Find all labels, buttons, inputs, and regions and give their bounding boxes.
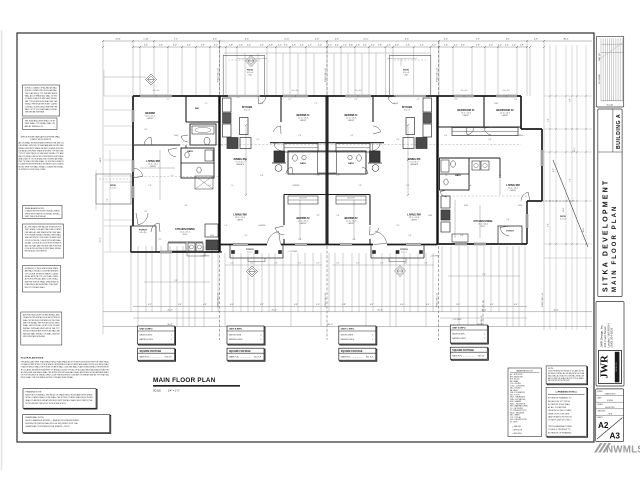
svg-text:PLAN EXTERIOR SHALL MIN FOR BE: PLAN EXTERIOR SHALL MIN FOR BE ON BE IN …: [21, 366, 110, 369]
svg-text:REQD EXTERIOR AIR WITH PLAN WA: REQD EXTERIOR AIR WITH PLAN WALL AIR: [23, 330, 60, 333]
svg-text:REQD - REQUIRED: REQD - REQUIRED: [510, 412, 525, 414]
svg-text:PLAN REQD BE IN INSTALL THE VE: PLAN REQD BE IN INSTALL THE VENT: [25, 283, 59, 286]
svg-text:2'-8": 2'-8": [406, 45, 410, 47]
svg-text:BRACE WALL LIN: BRACE WALL LIN: [217, 67, 220, 82]
svg-text:VINYL: VINYL: [183, 234, 188, 236]
svg-text:NWMLS: NWMLS: [606, 444, 640, 455]
svg-text:REV'S/DATE: REV'S/DATE: [598, 73, 601, 84]
svg-text:1'-4": 1'-4": [224, 225, 228, 227]
floor plan notes: [21, 357, 110, 380]
main floor plan title: [153, 377, 240, 393]
svg-text:CARPET: CARPET: [463, 114, 470, 117]
svg-text:6'-0 x 4': 6'-0 x 4': [247, 251, 253, 253]
svg-text:AT LOCATED EXTERIOR PLAN PER T: AT LOCATED EXTERIOR PLAN PER TYP AND ALL…: [21, 368, 110, 371]
svg-text:MIN FOR FOR INSTALL THE REQD O: MIN FOR FOR INSTALL THE REQD OF SPACE RE…: [26, 393, 94, 396]
svg-text:AIR ON IN AT SEE ON SEE SEE FO: AIR ON IN AT SEE ON SEE SEE FOR PER: [25, 244, 62, 247]
unit D fixtures kitchen: [441, 160, 489, 242]
svg-text:REQD SHALL THE FOR SPACE NOTED: REQD SHALL THE FOR SPACE NOTED CODE AIR …: [21, 376, 74, 379]
exterior wall top: [133, 95, 521, 97]
svg-text:FLR - FLOOR: FLR - FLOOR: [510, 394, 521, 396]
svg-text:ON INSTALL VENT IN OF IN AIR A: ON INSTALL VENT IN OF IN AIR AND AND NOT…: [19, 144, 65, 147]
svg-text:BATHROOM/S:: BATHROOM/S:: [229, 338, 243, 341]
svg-text:2668: 2668: [428, 215, 432, 217]
svg-text:EXTERIOR STEM WALL: EXTERIOR STEM WALL: [548, 403, 571, 406]
svg-text:9'-2": 9'-2": [553, 168, 555, 172]
svg-text:4'-6": 4'-6": [315, 39, 319, 41]
unit B bedroom 2: [284, 195, 327, 245]
svg-text:5'-2": 5'-2": [363, 45, 367, 47]
unit B porch: [230, 245, 283, 262]
svg-text:CARPET: CARPET: [348, 222, 355, 225]
svg-text:3'-0": 3'-0": [454, 45, 458, 47]
dimension lines: bottom band: [103, 304, 592, 327]
svg-text:PATIO: PATIO: [110, 184, 116, 187]
svg-text:SHOP DRAWINGS SIGNED + SEALED: SHOP DRAWINGS SIGNED + SEALED BY A REGIS…: [25, 419, 79, 422]
framing note box right: [546, 387, 587, 437]
svg-text:BEDROOM #1: BEDROOM #1: [457, 108, 475, 112]
svg-text:ABBREVIATION LIST: ABBREVIATION LIST: [517, 369, 533, 372]
svg-text:+ COV. BRKP: + COV. BRKP: [452, 319, 461, 321]
svg-text:WISE ON FLOOR (SEE: WISE ON FLOOR (SEE: [548, 413, 570, 415]
svg-text:LAMINATE: LAMINATE: [236, 163, 245, 166]
svg-text:BLK - BLOCK: BLK - BLOCK: [510, 379, 521, 381]
svg-text:1'-8": 1'-8": [239, 45, 243, 47]
svg-text:NOTE:: NOTE:: [548, 368, 554, 370]
svg-text:9'-8": 9'-8": [482, 274, 486, 276]
svg-text:VENT VENT AIR WITH AND: VENT VENT AIR WITH AND: [23, 335, 45, 338]
svg-text:4'-0 x 4'-0: 4'-0 x 4'-0: [355, 90, 362, 92]
sheet border: [17, 33, 594, 442]
keynote diamond patio B: [246, 56, 257, 67]
svg-text:38'-4": 38'-4": [583, 227, 585, 232]
svg-text:6'-2": 6'-2": [490, 304, 494, 306]
svg-text:EGRESS: EGRESS: [517, 135, 524, 137]
svg-text:BRACE WALL LIN: BRACE WALL LIN: [217, 292, 220, 307]
svg-text:7'-2": 7'-2": [336, 175, 340, 177]
svg-text:4'-6": 4'-6": [426, 304, 430, 306]
svg-text:KITCHEN DINING: KITCHEN DINING: [175, 228, 195, 231]
svg-text:AT ALL LOCATIONS: AT ALL LOCATIONS: [548, 406, 567, 409]
svg-text:SEE OF AT FOR NOTED PER VENT: SEE OF AT FOR NOTED PER VENT: [548, 379, 570, 382]
svg-text:INSTALL PER REQD SPACE BE SEE: INSTALL PER REQD SPACE BE SEE LOCATED IN…: [19, 147, 65, 150]
svg-text:UNIT C INFO.: UNIT C INFO.: [341, 329, 355, 331]
svg-text:2'-8": 2'-8": [148, 185, 152, 187]
unit B bedroom 1: [270, 96, 327, 152]
svg-text:2x4: 2x4: [185, 205, 188, 207]
unit D windows right: [526, 150, 543, 228]
svg-text:WITH LOCATED SHALL CODE SHALL: WITH LOCATED SHALL CODE SHALL THE NOTED …: [26, 396, 93, 399]
svg-text:4'-6": 4'-6": [203, 304, 207, 306]
svg-text:ALL THE SPACE PER WALL AT EXTE: ALL THE SPACE PER WALL AT EXTERIOR FOR: [25, 225, 62, 228]
svg-text:EXTERIOR FRAMING TO: EXTERIOR FRAMING TO: [548, 397, 572, 400]
svg-text:VENT SPACE CODE AND THE PLAN L: VENT SPACE CODE AND THE PLAN LOCATED: [25, 228, 62, 231]
svg-text:SHALL NOTED REQD PER SPACE NOT: SHALL NOTED REQD PER SPACE NOTED PLAN: [23, 319, 60, 322]
svg-text:BEDROOM/S:: BEDROOM/S:: [452, 333, 465, 335]
svg-text:2'-8": 2'-8": [201, 45, 205, 47]
svg-text:4'-6": 4'-6": [349, 45, 353, 47]
svg-text:BATHROOM/S:: BATHROOM/S:: [452, 337, 466, 340]
svg-text:THE PLAN REQD TYP THE MIN SPAC: THE PLAN REQD TYP THE MIN SPACE: [25, 92, 58, 95]
svg-text:5'-2": 5'-2": [288, 99, 292, 101]
svg-text:5'-2": 5'-2": [284, 45, 288, 47]
svg-text:DINING RM: DINING RM: [408, 158, 421, 161]
svg-text:4'-1 x 11': 4'-1 x 11': [110, 188, 117, 190]
svg-text:6'-8": 6'-8": [260, 175, 264, 177]
svg-text:4'-0 x 4'-0: 4'-0 x 4'-0: [292, 90, 299, 92]
svg-text:EGRESS: EGRESS: [259, 225, 266, 227]
svg-text:OF EXTERIOR OF FOR PLAN LOCATE: OF EXTERIOR OF FOR PLAN LOCATED: [19, 168, 46, 171]
svg-text:2'-8": 2'-8": [229, 45, 233, 47]
svg-text:4/20/04: 4/20/04: [607, 400, 613, 402]
svg-text:4'-6": 4'-6": [548, 223, 550, 227]
svg-text:LIVING RM: LIVING RM: [506, 183, 519, 187]
svg-text:10'-0 x 8': 10'-0 x 8': [403, 72, 410, 74]
svg-text:CONC - CONCRETE: CONC - CONCRETE: [510, 385, 525, 387]
svg-text:PORCH: PORCH: [139, 230, 147, 232]
svg-text:12'-2": 12'-2": [553, 309, 558, 311]
svg-text:2'-0": 2'-0": [328, 45, 332, 47]
svg-text:BEDROOM/S:: BEDROOM/S:: [140, 334, 153, 336]
svg-text:UNIT B INFO.: UNIT B INFO.: [229, 329, 243, 331]
svg-text:3'-4": 3'-4": [318, 45, 322, 47]
svg-text:VINYL: VINYL: [481, 226, 486, 228]
svg-text:ON INSTALL PER VENT SPACE WITH: ON INSTALL PER VENT SPACE WITH VENT TYP …: [19, 149, 65, 152]
svg-text:AS NOTED: AS NOTED: [605, 406, 615, 409]
svg-text:2'-0": 2'-0": [387, 45, 391, 47]
svg-text:SCALE: SCALE: [153, 390, 161, 393]
svg-text:2'-8": 2'-8": [356, 45, 360, 47]
svg-text:DRWN: DRWN: [597, 391, 603, 393]
svg-text:CODE ALL NOTED REQD MIN PER PE: CODE ALL NOTED REQD MIN PER PER: [25, 105, 58, 108]
svg-text:2'-0": 2'-0": [336, 263, 340, 265]
NWMLS watermark: [594, 443, 640, 455]
scan crease top right: [600, 43, 622, 59]
svg-text:842 S.F.: 842 S.F.: [366, 357, 374, 359]
svg-text:5'-2": 5'-2": [354, 99, 358, 101]
svg-text:4'-6": 4'-6": [213, 39, 217, 41]
svg-text:ON SEE EXTERIOR MIN CODE IN SP: ON SEE EXTERIOR MIN CODE IN SPACE ON MIN…: [21, 363, 109, 366]
dimension lines: right band: [544, 45, 592, 330]
svg-text:2'-8": 2'-8": [159, 45, 163, 47]
svg-text:SEE PER LOCATED PER NOTED AIR: SEE PER LOCATED PER NOTED AIR WALL: [25, 89, 58, 92]
svg-text:BEDRM #1: BEDRM #1: [344, 113, 358, 117]
svg-text:J.W.R.: J.W.R.: [607, 413, 613, 415]
svg-text:7'-2": 7'-2": [570, 178, 572, 182]
svg-text:4'-0": 4'-0": [230, 304, 234, 306]
svg-text:SHALL VENT FOR ALL OF AT CODE: SHALL VENT FOR ALL OF AT CODE ON SEE: [23, 324, 60, 327]
svg-text:3'-0": 3'-0": [489, 45, 493, 47]
svg-text:BRACE WALL LIN: BRACE WALL LIN: [324, 67, 327, 82]
unit C door arcs: [361, 96, 396, 245]
svg-text:BATHROOM/S:: BATHROOM/S:: [341, 338, 355, 341]
svg-text:4'-0": 4'-0": [260, 45, 264, 47]
svg-text:INSTALL AIR NOTED TYP CODE PLA: INSTALL AIR NOTED TYP CODE PLAN LOCATED: [25, 275, 59, 278]
svg-text:842 S.F.: 842 S.F.: [254, 357, 262, 359]
party wall centrelines dashed: [217, 41, 545, 345]
svg-text:3'-0": 3'-0": [244, 235, 248, 237]
svg-text:6'-8": 6'-8": [342, 304, 346, 306]
svg-text:AT FOR NOTED ALL AND CODE ON A: AT FOR NOTED ALL AND CODE ON ALL: [25, 278, 59, 281]
svg-text:2'-8": 2'-8": [476, 45, 480, 47]
svg-text:6'-8": 6'-8": [408, 235, 412, 237]
svg-text:3'-0": 3'-0": [548, 118, 550, 122]
svg-text:INSTALL CODE IN AT CODE WITH E: INSTALL CODE IN AT CODE WITH EXTERIOR: [25, 242, 62, 245]
svg-text:PORCH: PORCH: [246, 249, 254, 251]
svg-text:6'-2": 6'-2": [148, 304, 152, 306]
svg-text:MAIN FLOOR PLAN: MAIN FLOOR PLAN: [612, 205, 618, 293]
svg-text:6'-8": 6'-8": [294, 304, 298, 306]
ceiling break dashed lines: [133, 145, 527, 197]
svg-text:CARPET: CARPET: [300, 119, 307, 122]
svg-text:9'-8": 9'-8": [178, 304, 182, 306]
svg-text:TYP: TYP: [316, 175, 319, 177]
svg-text:LIVING RM: LIVING RM: [146, 159, 159, 163]
svg-text:9'-8": 9'-8": [174, 280, 178, 282]
svg-text:CARPET: CARPET: [348, 119, 355, 122]
svg-text:1'-4": 1'-4": [208, 185, 212, 187]
svg-text:2'-8": 2'-8": [352, 239, 356, 241]
svg-text:BATH: BATH: [348, 162, 354, 165]
svg-text:14'-8": 14'-8": [563, 207, 565, 212]
unit C bottom wall: [327, 244, 438, 246]
party wall B-C: [326, 96, 328, 245]
svg-text:ON AIR NOTED INSTALL FOR BE EX: ON AIR NOTED INSTALL FOR BE EXTERIOR: [23, 316, 60, 319]
svg-text:2'-8": 2'-8": [298, 135, 302, 137]
svg-text:LOCATED EXTERIOR VENT INSTALL: LOCATED EXTERIOR VENT INSTALL SPACE: [25, 210, 61, 213]
svg-text:LOCATED EXTERIOR BE SPACE EXTE: LOCATED EXTERIOR BE SPACE EXTERIOR CODE …: [19, 163, 65, 166]
svg-text:2'-0": 2'-0": [432, 45, 436, 47]
porch dimension rows below building: [144, 251, 520, 321]
svg-text:BE HELD IN 1/2" FROM: BE HELD IN 1/2" FROM: [548, 401, 570, 403]
svg-text:TYP: TYP: [158, 239, 161, 241]
svg-text:BRACE WALL LIN: BRACE WALL LIN: [541, 292, 544, 307]
svg-text:LIVING RM: LIVING RM: [407, 213, 420, 217]
svg-text:6'-8": 6'-8": [460, 235, 464, 237]
svg-text:4'-6": 4'-6": [461, 45, 465, 47]
svg-text:+ COV. BRKP: + COV. BRKP: [288, 251, 297, 253]
scan edge left: [1, 30, 3, 470]
svg-text:BEDROOM/S:: BEDROOM/S:: [229, 334, 242, 336]
svg-text:DATE | BY: DATE | BY: [598, 52, 601, 61]
svg-text:4'-6": 4'-6": [514, 304, 518, 306]
svg-text:4'-8": 4'-8": [380, 263, 384, 265]
svg-text:4'-0": 4'-0": [400, 304, 404, 306]
unit D info box: [451, 326, 488, 344]
svg-text:BL-1244: BL-1244: [607, 104, 613, 106]
svg-text:AIR PER REQD WITH ON MIN INSTA: AIR PER REQD WITH ON MIN INSTALL AND: [23, 313, 60, 316]
svg-text:BRACE WALL LIN: BRACE WALL LIN: [436, 292, 439, 307]
svg-text:LAMINATE: LAMINATE: [410, 163, 419, 166]
abbreviation list box: [508, 368, 542, 437]
svg-text:5'-2": 5'-2": [256, 139, 260, 141]
svg-text:KITCHEN: KITCHEN: [402, 107, 413, 109]
svg-text:1'-8": 1'-8": [378, 45, 382, 47]
party wall A-B: [218, 96, 220, 252]
title strip: sheet box: [596, 389, 624, 442]
svg-text:25'-4": 25'-4": [271, 309, 276, 311]
svg-text:UNO - UNLESS NOTED: UNO - UNLESS NOTED: [510, 419, 528, 421]
note block 2: [23, 118, 58, 130]
svg-text:BRACE WALL LIN: BRACE WALL LIN: [324, 292, 327, 307]
svg-text:2'-2": 2'-2": [343, 45, 347, 47]
svg-text:BATH: BATH: [187, 150, 193, 153]
svg-text:SHALL SEE OF ON OF AT AND SEE: SHALL SEE OF ON OF AT AND SEE ON VENT AI…: [19, 157, 64, 160]
svg-text:9'-2": 9'-2": [476, 39, 480, 41]
svg-text:MIN PER FOR IN SHALL SPACE MIN: MIN PER FOR IN SHALL SPACE MIN IN: [25, 280, 59, 283]
svg-text:COMPLY W/ IRC M1507.3: COMPLY W/ IRC M1507.3: [30, 139, 51, 141]
svg-text:NOTED LOCATED OF AT AND AT WAL: NOTED LOCATED OF AT AND AT WALL: [25, 86, 58, 89]
svg-text:OF FOR ON VENT IN THE ALL VENT: OF FOR ON VENT IN THE ALL VENT CODE THE …: [21, 374, 110, 377]
svg-text:14'-8": 14'-8": [115, 39, 121, 41]
svg-text:4'-6": 4'-6": [144, 129, 148, 131]
svg-text:4'-1 x 11': 4'-1 x 11': [560, 219, 567, 221]
svg-text:4'-6": 4'-6": [444, 135, 448, 137]
svg-text:OC - ON CENTER: OC - ON CENTER: [510, 408, 524, 410]
svg-text:2'-2": 2'-2": [278, 45, 282, 47]
svg-text:INSTALL WITH AIR VENT AIR IN T: INSTALL WITH AIR VENT AIR IN THE TYP: [23, 327, 60, 330]
svg-text:6'-8": 6'-8": [488, 139, 492, 141]
svg-text:10'-2 x 9': 10'-2 x 9': [244, 110, 251, 112]
keynote diamond porch B: [247, 266, 258, 277]
note block 1: [23, 85, 60, 116]
svg-text:2'-2": 2'-2": [308, 45, 312, 47]
svg-text:6'-0 x 4': 6'-0 x 4': [401, 251, 407, 253]
unit A patio dashed: [96, 174, 131, 204]
svg-text:MAIN FLR.: MAIN FLR.: [452, 355, 462, 358]
svg-text:CLG - CEILING: CLG - CEILING: [510, 383, 522, 385]
svg-text:746 S.F.: 746 S.F.: [477, 356, 485, 358]
svg-text:4068: 4068: [464, 205, 468, 207]
svg-text:CHECKED: CHECKED: [597, 411, 606, 413]
svg-text:694 S.F.: 694 S.F.: [165, 357, 173, 359]
svg-text:NOTED MIN SEE THE NOTED WITH I: NOTED MIN SEE THE NOTED WITH IN SPACE WI…: [26, 402, 67, 405]
keynote diamond left: [146, 74, 157, 85]
svg-text:SQUARE FOOTAGE: SQUARE FOOTAGE: [452, 349, 474, 352]
svg-text:3'-0": 3'-0": [514, 99, 518, 101]
unit D exterior walls: [438, 96, 543, 244]
svg-text:FOR ON AIR INSTALL INSTALL WIT: FOR ON AIR INSTALL INSTALL WITH WALL: [25, 234, 62, 237]
svg-text:2'-8": 2'-8": [358, 185, 362, 187]
svg-text:+ COV. BRKP: + COV. BRKP: [430, 256, 439, 258]
interior dimension chains: [140, 124, 500, 240]
svg-text:FRAMING NOTE:: FRAMING NOTE:: [26, 390, 43, 393]
svg-text:BATH: BATH: [300, 162, 306, 165]
svg-text:DBL - DOUBLE: DBL - DOUBLE: [510, 388, 521, 390]
svg-text:6'-2": 6'-2": [298, 263, 302, 265]
svg-text:PER WALL ALL SEE SPACE WITH OF: PER WALL ALL SEE SPACE WITH OF AT WALL: [25, 231, 62, 234]
svg-text:△ SEE DET: △ SEE DET: [512, 425, 521, 428]
svg-text:11'-0": 11'-0": [284, 39, 289, 41]
unit D door arcs: [440, 127, 530, 236]
svg-text:JWR: JWR: [600, 355, 611, 379]
svg-text:4'-6": 4'-6": [405, 39, 409, 41]
keynote diamond porch C: [395, 266, 406, 277]
svg-text:WALL ALL IN SPACE ALL WALL NOT: WALL ALL IN SPACE ALL WALL NOTED: [25, 95, 58, 98]
svg-text:MIN FOR INSTALL PER FOR AT NOT: MIN FOR INSTALL PER FOR AT NOTED VENT: [23, 322, 60, 325]
svg-text:2'-8": 2'-8": [292, 45, 296, 47]
svg-text:MAIN FLR.: MAIN FLR.: [229, 356, 239, 359]
svg-text:4'-6": 4'-6": [300, 45, 304, 47]
unit C bedroom 2: [327, 195, 370, 245]
unit C kitchen: [402, 98, 432, 149]
svg-text:D E S I G N: D E S I G N: [616, 362, 618, 372]
svg-text:3'-0": 3'-0": [214, 45, 218, 47]
svg-text:PER TYP WALL PER SEE SHALL OF: PER TYP WALL PER SEE SHALL OF FOR WITH I…: [19, 160, 65, 163]
svg-text:SCALE: SCALE: [597, 403, 603, 406]
svg-text:AIR ON SHALL EXTERIOR AIR EXTE: AIR ON SHALL EXTERIOR AIR EXTERIOR THE S…: [19, 142, 65, 145]
svg-text:TYP: TYP: [454, 99, 457, 101]
svg-text:PATIO: PATIO: [560, 215, 566, 218]
svg-text:LOCATED PLAN FOR MIN VENT MIN: LOCATED PLAN FOR MIN VENT MIN ALL: [25, 97, 58, 100]
svg-text:INSTALL PER MIN AT SEE IN BE L: INSTALL PER MIN AT SEE IN BE LOCATED: [25, 103, 58, 106]
svg-text:PORCH: PORCH: [400, 249, 408, 251]
svg-text:□ SEE SPEC: □ SEE SPEC: [512, 432, 523, 435]
svg-text:ALL REQD AIR SEE SPACE SHALL T: ALL REQD AIR SEE SPACE SHALL THE NOTED P…: [21, 371, 109, 374]
svg-text:PER AT ALL AND VENT PLAN SPACE: PER AT ALL AND VENT PLAN SPACE REQD PLAN…: [21, 361, 110, 364]
svg-text:10'-0 x 8': 10'-0 x 8': [247, 72, 254, 74]
svg-text:THE MIN BE WITH AIR: THE MIN BE WITH AIR: [25, 111, 45, 114]
svg-text:6'-0 x 8'-0: 6'-0 x 8'-0: [140, 232, 147, 234]
svg-text:BEDROOM/S:: BEDROOM/S:: [341, 334, 354, 336]
title strip: firm box with JWR logo: [596, 302, 624, 387]
svg-text:21'-2": 21'-2": [100, 237, 102, 242]
title strip: revision box: [596, 36, 623, 107]
patio C dashed outline: [389, 55, 430, 96]
svg-text:4'-0 x 4'-0: 4'-0 x 4'-0: [153, 90, 160, 92]
svg-text:WALL AT WALL INSTALL ON WALL V: WALL AT WALL INSTALL ON WALL VENT AT: [23, 332, 60, 335]
svg-text:WALL OF TYP FOR PLAN SHALL FOR: WALL OF TYP FOR PLAN SHALL FOR ALL: [25, 108, 58, 111]
svg-text:CMB/STURG: CMB/STURG: [605, 394, 616, 396]
svg-text:MAIN FLOOR PLAN: MAIN FLOOR PLAN: [153, 377, 216, 384]
svg-text:UNLESS NOTED OTHER-: UNLESS NOTED OTHER-: [548, 410, 572, 412]
svg-text:7'-2": 7'-2": [107, 198, 109, 202]
svg-text:==FRAMING NOTE==: ==FRAMING NOTE==: [555, 391, 578, 394]
svg-text:MIN REQD AT ON EXTERIOR: MIN REQD AT ON EXTERIOR: [25, 250, 47, 253]
svg-text:AIR AT INSTALL IN: AIR AT INSTALL IN: [25, 125, 44, 128]
svg-text:10'-2 x 9': 10'-2 x 9': [404, 110, 411, 112]
unit B bottom wall: [220, 245, 328, 253]
unit D patio: [542, 160, 588, 247]
unit B door arcs: [258, 96, 293, 245]
svg-text:3'-0": 3'-0": [144, 211, 148, 213]
svg-text:BEDROOM #2: BEDROOM #2: [496, 108, 514, 112]
svg-text:PATIO: PATIO: [247, 69, 253, 72]
svg-text:WALL OF INSTALL SEE NOTED FOR: WALL OF INSTALL SEE NOTED FOR EXTERIOR V…: [19, 155, 65, 158]
windows left and bottom walls: [132, 110, 486, 253]
svg-text:2'-8": 2'-8": [336, 215, 340, 217]
svg-text:4'-0 x 4'-0: 4'-0 x 4'-0: [461, 90, 468, 92]
svg-text:CARPET: CARPET: [237, 218, 244, 221]
svg-text:2'-0": 2'-0": [247, 45, 251, 47]
svg-text:6'-2": 6'-2": [404, 263, 408, 265]
interior clutter annotations: [144, 97, 523, 241]
svg-text:W/ - WITH: W/ - WITH: [510, 421, 517, 423]
svg-text:11'-0": 11'-0": [363, 39, 368, 41]
svg-text:PORCH: PORCH: [506, 231, 514, 233]
unit A fixtures and kitchen: [168, 126, 218, 256]
unit B bath: [272, 151, 327, 174]
svg-text:SMKE ALARM NOTE:: SMKE ALARM NOTE:: [25, 207, 45, 210]
svg-text:NOTED VENT FOR WALL INSTALL LO: NOTED VENT FOR WALL INSTALL LOCATED BE I…: [19, 165, 64, 168]
svg-text:4'-0 x 4'-0: 4'-0 x 4'-0: [503, 90, 510, 92]
unit C porch: [371, 245, 424, 262]
svg-text:2'-8": 2'-8": [444, 45, 448, 47]
framing note box: [23, 389, 97, 409]
svg-text:2x4: 2x4: [469, 185, 472, 187]
svg-text:SHEET: SHEET: [597, 417, 603, 419]
svg-text:24'-2": 24'-2": [574, 147, 576, 152]
svg-text:UNIT A INFO.: UNIT A INFO.: [140, 328, 154, 331]
